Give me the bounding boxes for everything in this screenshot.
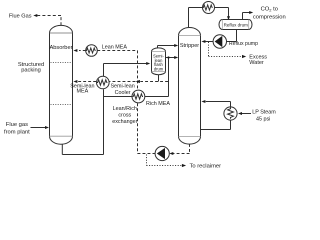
reflux pump <box>213 35 226 48</box>
svg-text:45 psi: 45 psi <box>256 116 270 122</box>
svg-text:cross: cross <box>118 113 131 119</box>
svg-text:drum: drum <box>154 66 164 71</box>
wire reboiler vapor return <box>206 102 231 108</box>
wire flue gas inlet <box>31 127 46 129</box>
bottom pump <box>155 146 169 160</box>
svg-text:compression: compression <box>253 14 286 20</box>
wire semi-lean dashed drum stub to absorber <box>140 81 168 83</box>
wire riser to flash drum <box>104 64 147 77</box>
semi-lean cooler <box>97 76 110 89</box>
arrow into absorber semi-lean <box>73 80 77 83</box>
wire reboiler bottom to stripper <box>201 120 231 129</box>
lean MEA cooler <box>86 45 98 57</box>
condenser <box>203 2 215 14</box>
wire excess water dotted <box>209 42 241 57</box>
wire flue gas outlet dashed <box>37 16 62 26</box>
svg-text:Water: Water <box>249 60 264 66</box>
svg-text:Lean MEA: Lean MEA <box>102 45 128 51</box>
wire stripper top to condenser <box>189 8 203 28</box>
svg-text:Rich MEA: Rich MEA <box>146 101 170 107</box>
wire CO2 line <box>243 13 250 20</box>
reflux drum <box>219 20 252 30</box>
svg-text:Cooler: Cooler <box>115 90 131 96</box>
wire to reclaimer dotted <box>147 155 182 166</box>
wire absorber bottom outlet riser <box>62 89 103 154</box>
semi-lean flash drum <box>152 48 166 75</box>
reboiler <box>224 107 237 120</box>
svg-text:Flue gas: Flue gas <box>6 122 28 128</box>
packing dotted line lower <box>51 104 72 106</box>
svg-text:from plant: from plant <box>4 129 30 135</box>
svg-text:packing: packing <box>21 67 41 73</box>
wire branch to cross exchanger <box>104 96 133 98</box>
svg-text:Reflux drum: Reflux drum <box>224 22 249 27</box>
wire reflux pump to stripper <box>205 41 213 43</box>
wire condenser to reflux drum <box>215 8 229 17</box>
lean/rich cross exchanger <box>132 90 145 103</box>
svg-text:Flue Gas: Flue Gas <box>9 14 32 20</box>
svg-text:Absorber: Absorber <box>49 45 72 51</box>
svg-text:exchanger: exchanger <box>112 119 137 125</box>
wire stripper bottom dashed to pump <box>173 144 190 154</box>
svg-text:CO2 to: CO2 to <box>261 6 278 12</box>
svg-text:Lean/Rich: Lean/Rich <box>113 106 137 112</box>
svg-text:MEA: MEA <box>77 89 89 95</box>
wire lean MEA dashed to corner and down <box>97 51 137 90</box>
wire reflux drum bottom to pump <box>226 30 237 42</box>
svg-text:LP Steam: LP Steam <box>252 110 276 116</box>
svg-text:To reclaimer: To reclaimer <box>190 163 222 169</box>
wire lean MEA dashed into absorber <box>79 50 86 52</box>
wire rich MEA to stripper <box>145 58 175 97</box>
wire LP steam arrow <box>242 113 251 115</box>
packing dotted line upper <box>51 62 72 64</box>
svg-text:Stripper: Stripper <box>180 43 199 49</box>
stripper column <box>179 28 201 145</box>
wire flash drum top to stripper <box>158 46 175 49</box>
svg-text:Semi-lean: Semi-lean <box>110 83 134 89</box>
svg-text:Reflux pump: Reflux pump <box>229 41 258 47</box>
absorber column <box>50 25 73 144</box>
wire flash drum bottom stub <box>158 75 160 82</box>
junction dot rich line <box>167 56 169 58</box>
wire lean dashed below exchanger to pump <box>138 103 155 153</box>
mid arrow on semi-lean line <box>136 80 140 83</box>
